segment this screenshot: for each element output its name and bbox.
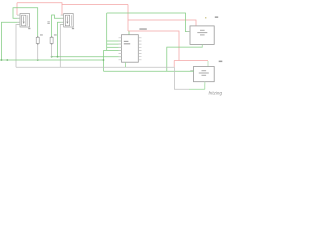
wire green motor2 feed bus — [104, 70, 194, 72]
pin stubs sensor U1 — [17, 15, 20, 24]
wire green sensor U1 pin3 to far left drop — [2, 22, 21, 60]
wire green V1 branch IC pin3 — [107, 43, 122, 45]
wire green IC top vcc stub — [128, 31, 130, 34]
wire red drop to IC VCC — [127, 5, 129, 32]
pin stub motor M1 bottom — [201, 44, 203, 47]
motor M1 box — [187, 26, 214, 47]
wire green motor M2 left pin link — [193, 69, 195, 72]
wire gray gnd bus — [16, 66, 174, 68]
label sensor U1 — [28, 28, 30, 29]
pin stubs sensor U2 — [61, 15, 64, 24]
wire green sensor U1 pin2 loop to R1 — [13, 8, 38, 37]
junction dot R2 bottom on LB — [51, 56, 53, 58]
sensor U2 box — [61, 14, 74, 30]
wire green motor M1 bottom to bus junction — [167, 44, 203, 71]
label resistor R2 — [54, 34, 57, 35]
pin stub IC bottom gnd — [125, 62, 127, 65]
wire green V1 IC feed — [106, 13, 108, 50]
op-amp IC U3 box — [119, 35, 142, 65]
label motor M2 internal — [202, 70, 207, 71]
stray dot near m1 label — [205, 17, 206, 18]
label near sensor U2 wire — [47, 20, 49, 23]
label motor M1 internal — [200, 30, 205, 31]
wire green sensor U2 pin2 drop to L1 — [58, 22, 64, 56]
pin stub motor M1 left — [187, 31, 190, 33]
motor M2 box — [190, 67, 214, 85]
wire green motor M2 bottom return — [189, 82, 205, 90]
wire green top run to motor M1 — [107, 13, 190, 32]
wire red branch right to motor M1 top — [128, 20, 196, 26]
wire green L1 to IC pin5 — [104, 49, 122, 51]
label 5V red — [139, 28, 146, 30]
pin stub motor M2 top — [207, 61, 209, 67]
label m2 — [219, 61, 223, 63]
pin stubs IC right — [138, 38, 141, 60]
wire green V1 branch IC pin2 — [107, 40, 122, 42]
wire green sensor U2 pin1 jog to R2 — [52, 15, 64, 37]
wire gray sensor U2 gnd pin drop — [60, 24, 63, 67]
pin stub motor M2 left — [190, 69, 193, 71]
wire green LB resistor R2 bottom to IC pin7 — [52, 56, 122, 58]
wire gray IC gnd pin drop — [125, 62, 127, 67]
resistor R2 — [50, 34, 57, 56]
junction dot LA far left — [1, 59, 3, 61]
junction dot R1 bottom on LA — [37, 59, 39, 61]
label m1 — [215, 16, 218, 18]
label sensor U2 — [72, 28, 74, 29]
junction dot V0 on LA — [103, 59, 105, 61]
sensor U1 box — [17, 14, 30, 30]
wire red power rail top — [17, 3, 128, 5]
wire green V0 drop to motor bus — [103, 50, 105, 71]
wire red drop to sensor U1 — [16, 3, 18, 15]
wire green LA far-left to V0 — [0, 59, 104, 61]
junction dot U2 pin2 on LB — [57, 56, 59, 58]
wire red drop to gnd bus corner — [173, 61, 175, 68]
resistor R1 — [36, 34, 43, 60]
pin stub motor M2 bottom — [204, 82, 206, 85]
wire gray sensor U1 gnd pin drop — [16, 24, 20, 67]
junction dot LA x7 — [6, 59, 8, 61]
svg-text:fritzing: fritzing — [208, 90, 222, 95]
label resistor R1 — [40, 34, 43, 35]
wire red drop to sensor U2 — [61, 5, 63, 16]
wire green V1 branch IC pin4 — [107, 46, 122, 48]
label IC U3 — [124, 41, 129, 42]
wire gray gnd down right corner — [174, 67, 189, 89]
wire red motor-power branch — [128, 31, 208, 61]
pin stubs IC left — [119, 38, 122, 60]
